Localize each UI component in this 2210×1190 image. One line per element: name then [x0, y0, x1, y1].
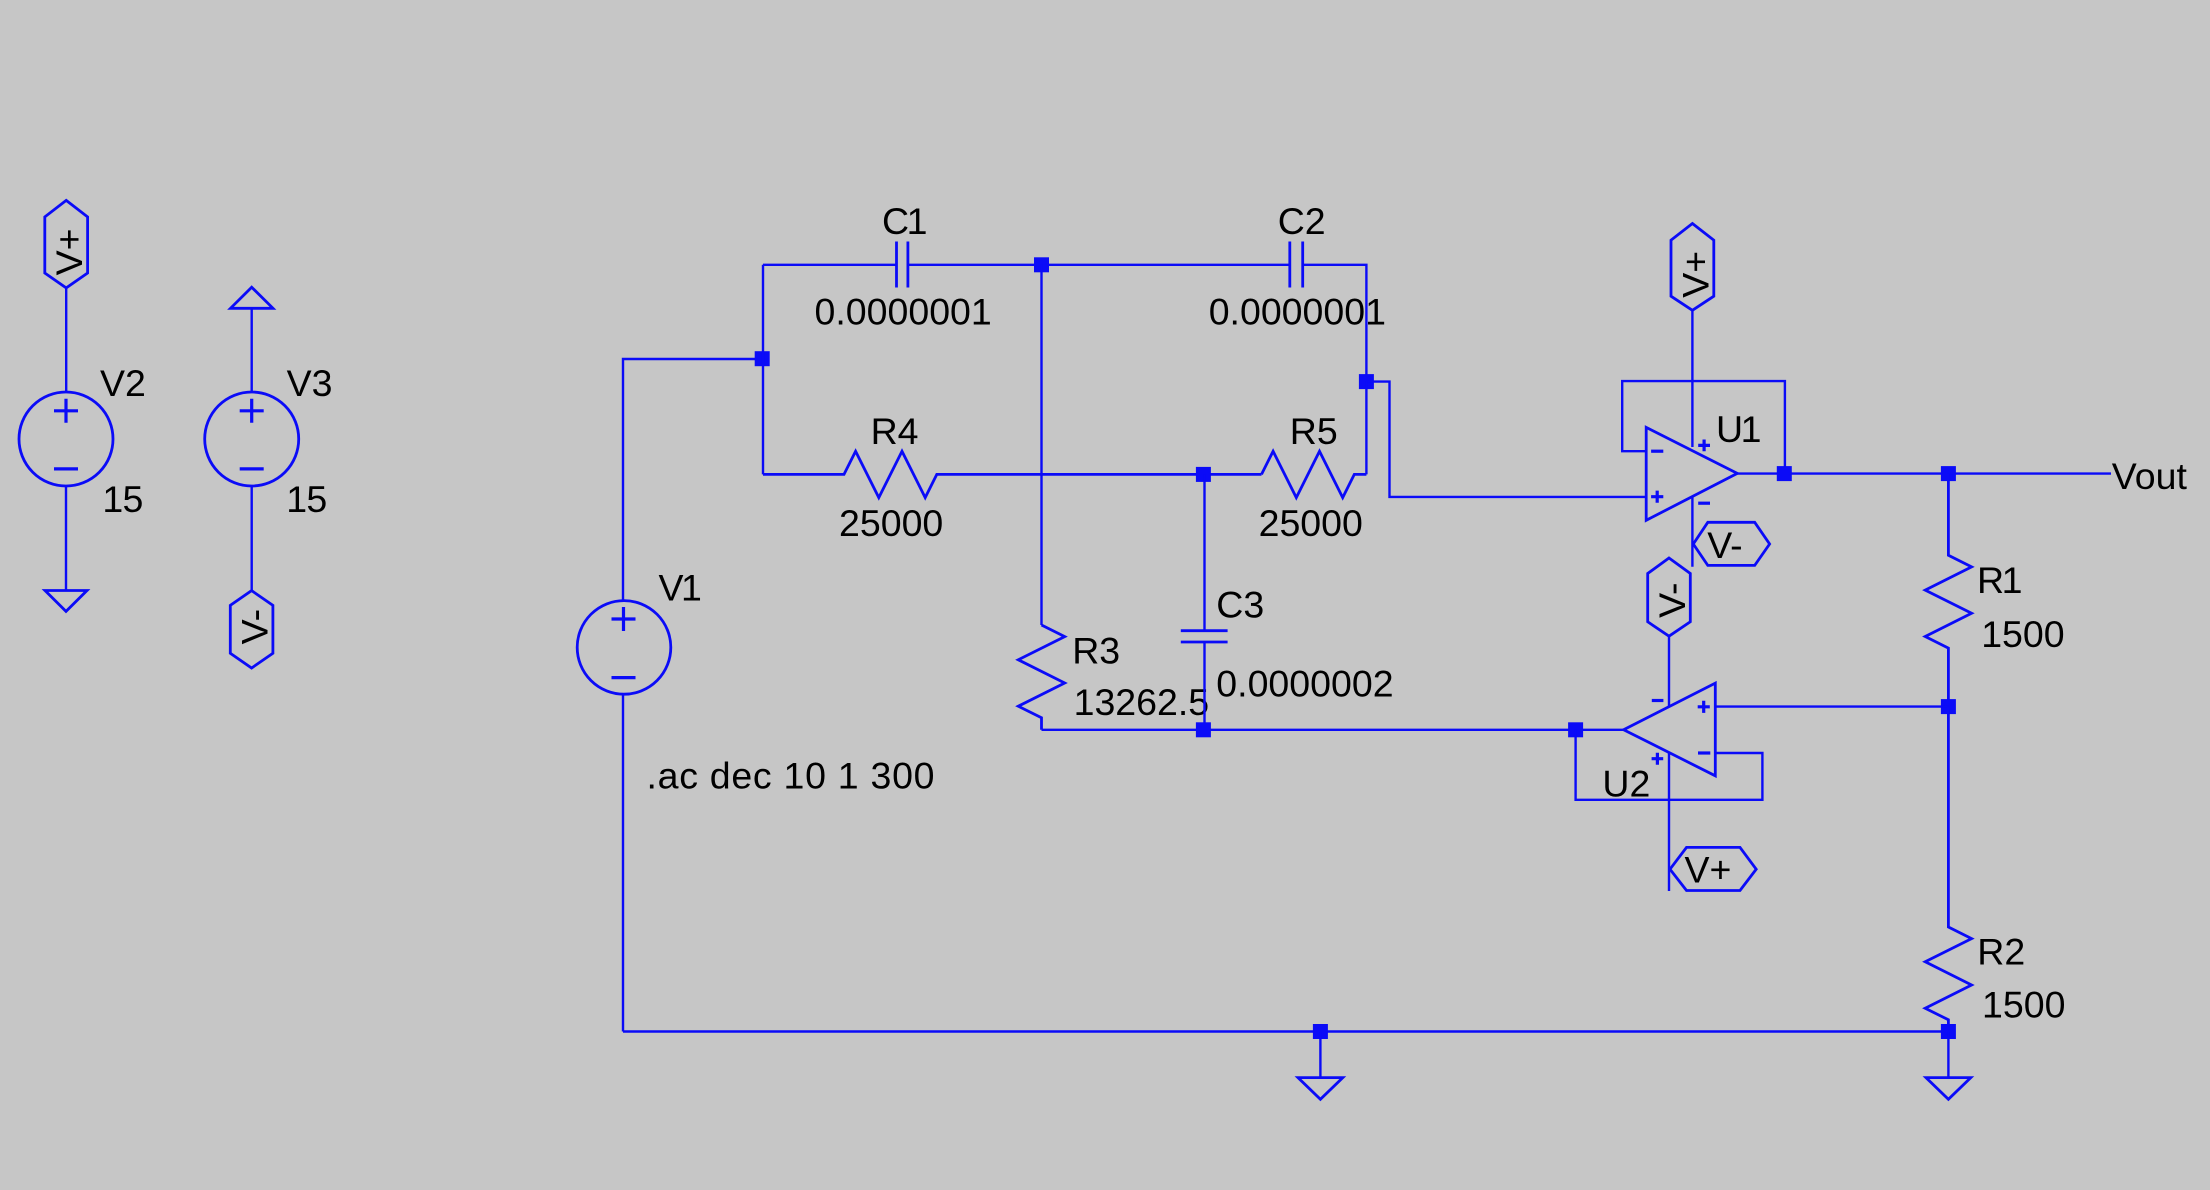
svg-text:V+: V+: [1674, 251, 1716, 298]
node junction (1203,474): [1196, 467, 1211, 482]
net flag V+ (below U2): [1670, 847, 1756, 890]
net flag V- (below V3): [230, 591, 275, 668]
net flag V+ (above U1): [1671, 224, 1716, 311]
svg-text:Vout: Vout: [2112, 455, 2188, 497]
svg-text:V-: V-: [1707, 524, 1742, 566]
node junction (1948,1032): [1941, 1024, 1956, 1039]
node junction (1948,707): [1941, 699, 1956, 714]
wire V- flag to U2 supply pin: [1668, 636, 1670, 706]
ground (middle): [1298, 1078, 1343, 1100]
svg-text:V+: V+: [48, 228, 90, 275]
node junction (1041,265): [1034, 257, 1049, 272]
wire V+ flag to U1 supply pin: [1691, 310, 1693, 447]
wire ground stem (middle): [1319, 1032, 1321, 1079]
wire bottom ground rail: [623, 1030, 1948, 1032]
svg-text:R5: R5: [1290, 410, 1338, 452]
svg-text:U1: U1: [1716, 408, 1761, 450]
wire U1 output to Vout: [1737, 472, 2111, 474]
op-amp U2: [1624, 683, 1716, 776]
wire C2 right down to node B: [1303, 265, 1367, 382]
node junction (1203,730): [1196, 722, 1211, 737]
wire V1 bottom to ground rail: [622, 694, 624, 1031]
wire V+ flag to V2: [65, 288, 67, 392]
capacitor C1: [897, 242, 908, 288]
svg-text:V+: V+: [1685, 849, 1732, 891]
wire top rail to C1: [763, 264, 897, 266]
svg-text:V1: V1: [659, 566, 702, 608]
input arrow flag (above V3): [231, 287, 274, 308]
svg-text:13262.5: 13262.5: [1074, 681, 1210, 723]
wire node down to R3: [1040, 265, 1042, 625]
svg-text:C3: C3: [1216, 583, 1264, 625]
svg-text:25000: 25000: [839, 502, 943, 544]
wire V2 to ground: [65, 486, 67, 591]
voltage source V2: [19, 392, 113, 486]
voltage source V1: [577, 601, 671, 695]
svg-text:C1: C1: [882, 200, 927, 242]
wire node B down to R5: [1365, 382, 1367, 475]
svg-text:R4: R4: [871, 410, 919, 452]
node junction (1784,474): [1777, 466, 1792, 481]
svg-text:0.0000001: 0.0000001: [1209, 291, 1386, 333]
svg-text:V-: V-: [234, 609, 276, 644]
wire C3 bottom lead: [1203, 642, 1205, 730]
svg-text:0.0000001: 0.0000001: [815, 291, 992, 333]
svg-text:25000: 25000: [1259, 502, 1363, 544]
capacitor C2: [1290, 242, 1303, 288]
wire C3 top lead: [1203, 474, 1205, 630]
svg-text:V-: V-: [1651, 582, 1693, 617]
wire ground stem (right): [1947, 1032, 1949, 1079]
svg-text:15: 15: [286, 478, 327, 520]
svg-text:V3: V3: [287, 362, 333, 404]
svg-text:0.0000002: 0.0000002: [1216, 663, 1393, 705]
wire V1 top to node A: [623, 359, 762, 602]
ground (below V2): [45, 591, 87, 612]
resistor R1: [1925, 474, 1971, 707]
node B junction (1366,382): [1359, 374, 1374, 389]
resistor R4: [763, 451, 1262, 497]
svg-text:R2: R2: [1977, 930, 2025, 972]
voltage source V3: [205, 392, 299, 486]
svg-text:.ac dec 10 1 300: .ac dec 10 1 300: [647, 755, 935, 797]
wire U1 feedback loop: [1622, 381, 1785, 474]
wire U2 feedback loop: [1576, 730, 1763, 800]
svg-text:C2: C2: [1278, 200, 1326, 242]
resistor R3: [1018, 625, 1064, 730]
node junction (1576,730): [1568, 722, 1583, 737]
wire node B jog to U1 noninverting input: [1366, 382, 1646, 497]
wire U1 bottom supply: [1691, 496, 1693, 566]
svg-text:R1: R1: [1977, 559, 2022, 601]
node junction (1948,474): [1941, 466, 1956, 481]
svg-text:1500: 1500: [1981, 613, 2064, 655]
resistor R5: [1262, 451, 1367, 497]
ground (right): [1926, 1078, 1971, 1100]
wire U2 bottom supply: [1668, 753, 1670, 891]
wire V3 to V- flag: [250, 486, 252, 591]
net flag V+ (above V2): [45, 200, 90, 288]
svg-text:1500: 1500: [1982, 983, 2065, 1025]
net flag V- (below U1): [1693, 522, 1769, 566]
capacitor C3: [1181, 631, 1228, 642]
net flag V- (above U2): [1648, 558, 1693, 636]
svg-text:R3: R3: [1072, 629, 1120, 671]
op-amp U1: [1646, 427, 1737, 520]
wire lower rail R3 to U2 output: [1042, 729, 1624, 731]
wire C1 to C2: [908, 264, 1290, 266]
wire left vertical (763,264-474): [762, 265, 764, 475]
resistor R2: [1925, 707, 1971, 1032]
svg-text:V2: V2: [100, 362, 146, 404]
svg-text:15: 15: [102, 478, 143, 520]
wire U2 noninverting input to R1/R2 node: [1715, 705, 1948, 707]
wire arrow to V3: [250, 308, 252, 392]
node A junction (762,359): [755, 351, 770, 366]
node junction (1320,1032): [1313, 1024, 1328, 1039]
svg-text:U2: U2: [1602, 763, 1650, 805]
